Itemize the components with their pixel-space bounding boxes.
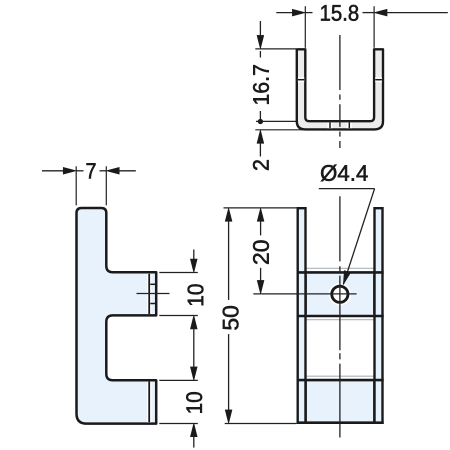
right wall bbox=[375, 208, 383, 423]
side profile view body bbox=[77, 208, 157, 424]
value text 2 bbox=[253, 160, 269, 170]
value text 10 upper bbox=[188, 284, 204, 305]
sheet edge line right, middle band bbox=[373, 275, 375, 315]
dimension 2 bbox=[253, 130, 303, 170]
dimension 10 lower bbox=[159, 367, 202, 448]
white seam left, bottom band bbox=[303, 381, 305, 421]
sheet edge line left, bottom band bbox=[305, 382, 307, 422]
bend tick bottom 2 bbox=[347, 123, 352, 129]
value text 7 bbox=[87, 163, 96, 178]
label Ø4.4 with leader bbox=[319, 165, 375, 285]
upper arm tip divider bbox=[147, 274, 152, 314]
thick line top of middle band bbox=[297, 271, 384, 274]
hole horizontal centerline bbox=[253, 293, 356, 295]
sheet edge line right, bottom band bbox=[373, 382, 375, 422]
dimension 15.8 bbox=[276, 5, 448, 48]
dimension 16.7 bbox=[253, 21, 296, 124]
blue band bottom bbox=[299, 381, 381, 421]
blue band middle bbox=[299, 274, 381, 315]
thick line bottom of middle band bbox=[297, 315, 384, 318]
value text 10 lower bbox=[186, 392, 202, 413]
value text 15.8 bbox=[321, 5, 358, 21]
bend tick left wall bbox=[298, 77, 304, 82]
faint bend line below middle band bbox=[299, 319, 381, 321]
bend tick right wall bbox=[375, 77, 382, 82]
value text 20 bbox=[253, 240, 269, 263]
hole bbox=[332, 286, 348, 302]
hole casing bbox=[332, 286, 348, 302]
white seam left, middle band bbox=[303, 274, 305, 315]
faint bend line above bottom band bbox=[299, 375, 381, 377]
bottom edge bbox=[297, 421, 384, 424]
faint bend line above middle band bbox=[299, 267, 381, 269]
bend tick bottom 1 bbox=[328, 123, 333, 129]
front view bbox=[253, 196, 383, 437]
lower arm tip divider bbox=[147, 382, 152, 423]
white seam right, bottom band bbox=[375, 381, 377, 421]
dimension 7 bbox=[42, 163, 136, 205]
value text 50 bbox=[223, 306, 239, 330]
U-channel section view body bbox=[297, 49, 383, 129]
dimension 50 bbox=[223, 208, 297, 424]
dimension 10 upper bbox=[159, 250, 203, 368]
value text O4.4 bbox=[321, 165, 368, 182]
left wall bbox=[298, 208, 306, 423]
upper arm centerline bbox=[137, 293, 170, 295]
U-channel centerline bbox=[339, 35, 341, 148]
white seam right, middle band bbox=[375, 274, 377, 315]
value text 16.7 bbox=[253, 65, 269, 104]
sheet edge line left, middle band bbox=[305, 275, 307, 315]
vertical centerline bbox=[339, 196, 341, 437]
upper arm tip cross tick 1 bbox=[150, 283, 155, 285]
upper arm tip cross tick 2 bbox=[150, 303, 155, 305]
dimension 20 bbox=[253, 208, 269, 294]
thick line top of bottom band bbox=[297, 379, 384, 382]
